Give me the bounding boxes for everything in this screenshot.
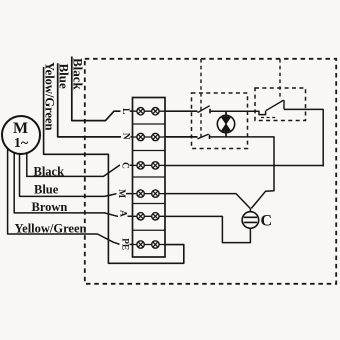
svg-text:L: L xyxy=(120,108,130,114)
svg-text:Yelow/Green: Yelow/Green xyxy=(43,62,57,131)
svg-text:C: C xyxy=(261,213,273,230)
svg-text:1~: 1~ xyxy=(14,136,29,151)
svg-text:Black: Black xyxy=(34,165,65,179)
svg-text:Blue: Blue xyxy=(57,64,72,90)
svg-text:N: N xyxy=(121,133,131,140)
svg-text:Black: Black xyxy=(71,58,86,91)
svg-text:PE: PE xyxy=(119,238,129,250)
svg-text:Blue: Blue xyxy=(34,183,59,197)
svg-text:C: C xyxy=(120,162,130,169)
svg-text:M: M xyxy=(13,120,28,137)
svg-text:Yellow/Green: Yellow/Green xyxy=(15,222,87,236)
svg-text:Brown: Brown xyxy=(32,200,68,214)
svg-text:A: A xyxy=(117,210,127,217)
svg-text:M: M xyxy=(116,189,126,198)
